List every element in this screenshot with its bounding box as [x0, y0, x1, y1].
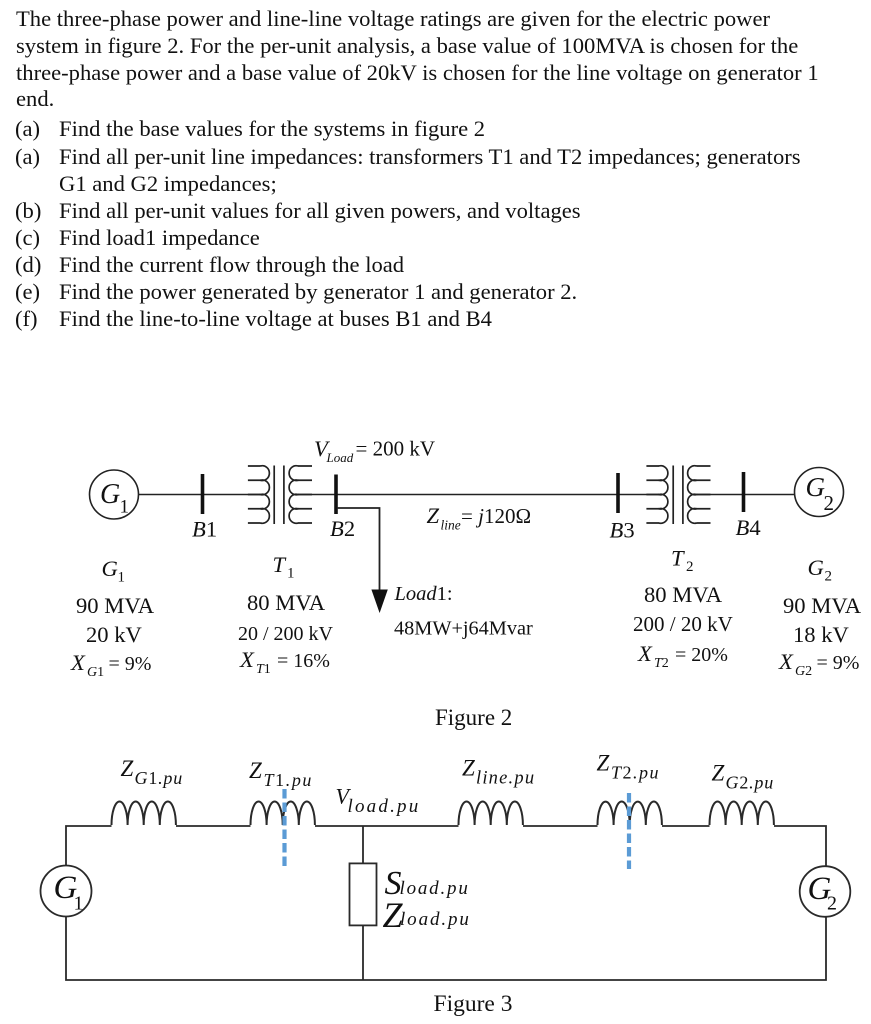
svg-text:90 MVA: 90 MVA [783, 593, 862, 618]
svg-text:G1: G1 [87, 665, 104, 680]
svg-text:2: 2 [827, 893, 837, 915]
svg-text:Z: Z [462, 756, 475, 781]
svg-text:90 MVA: 90 MVA [76, 593, 155, 618]
svg-text:line: line [441, 518, 461, 533]
svg-text:2: 2 [825, 569, 833, 585]
svg-text:G2.pu: G2.pu [726, 773, 775, 793]
svg-text:B2: B2 [330, 516, 355, 541]
svg-text:G: G [100, 479, 120, 510]
svg-text:Z: Z [121, 756, 134, 781]
svg-text:80 MVA: 80 MVA [247, 590, 326, 615]
svg-text:200 / 20 kV: 200 / 20 kV [633, 612, 733, 636]
svg-text:= 200 kV: = 200 kV [356, 437, 436, 461]
svg-text:Z: Z [249, 758, 262, 783]
svg-text:= 9%: = 9% [109, 653, 152, 675]
svg-text:load.pu: load.pu [400, 909, 471, 930]
svg-text:X: X [778, 649, 794, 674]
svg-text:X: X [637, 641, 653, 666]
svg-text:T1.pu: T1.pu [264, 770, 314, 790]
svg-text:line.pu: line.pu [476, 769, 535, 789]
svg-text:= 16%: = 16% [277, 650, 330, 672]
svg-text:Load: Load [326, 450, 354, 465]
svg-text:Figure 2: Figure 2 [435, 705, 512, 730]
svg-text:T2: T2 [654, 656, 669, 671]
svg-text:T: T [671, 546, 685, 571]
svg-text:1: 1 [118, 570, 126, 586]
svg-text:2: 2 [824, 491, 835, 515]
svg-text:T2.pu: T2.pu [611, 763, 660, 783]
svg-text:B3: B3 [610, 518, 635, 543]
svg-text:Z: Z [597, 751, 610, 776]
svg-text:20 kV: 20 kV [86, 622, 143, 647]
svg-text:G: G [808, 555, 824, 580]
svg-text:G2: G2 [795, 664, 812, 679]
svg-text:Load1:: Load1: [394, 583, 453, 605]
svg-text:2: 2 [686, 559, 694, 575]
svg-text:B4: B4 [736, 515, 761, 540]
svg-text:20 / 200 kV: 20 / 200 kV [238, 623, 334, 645]
svg-text:= 20%: = 20% [675, 644, 728, 666]
svg-text:1: 1 [74, 893, 84, 915]
svg-text:80 MVA: 80 MVA [644, 582, 723, 607]
svg-text:B1: B1 [192, 517, 217, 542]
svg-text:T1: T1 [256, 662, 271, 677]
svg-text:X: X [239, 647, 255, 672]
svg-text:G1.pu: G1.pu [135, 768, 184, 788]
svg-text:= 9%: = 9% [817, 652, 860, 674]
svg-text:G: G [806, 472, 826, 502]
svg-text:48MW+j64Mvar: 48MW+j64Mvar [394, 618, 533, 640]
svg-text:= j120Ω: = j120Ω [461, 504, 531, 528]
svg-text:load.pu: load.pu [348, 796, 421, 817]
svg-text:Z: Z [427, 503, 440, 528]
svg-text:18 kV: 18 kV [793, 622, 850, 647]
svg-text:load.pu: load.pu [400, 878, 470, 899]
svg-text:Z: Z [712, 761, 725, 786]
svg-text:Figure 3: Figure 3 [434, 991, 513, 1017]
svg-text:G: G [102, 556, 118, 581]
svg-text:1: 1 [287, 566, 295, 582]
svg-text:T: T [273, 552, 287, 577]
svg-text:X: X [70, 650, 86, 675]
svg-text:1: 1 [120, 497, 130, 518]
